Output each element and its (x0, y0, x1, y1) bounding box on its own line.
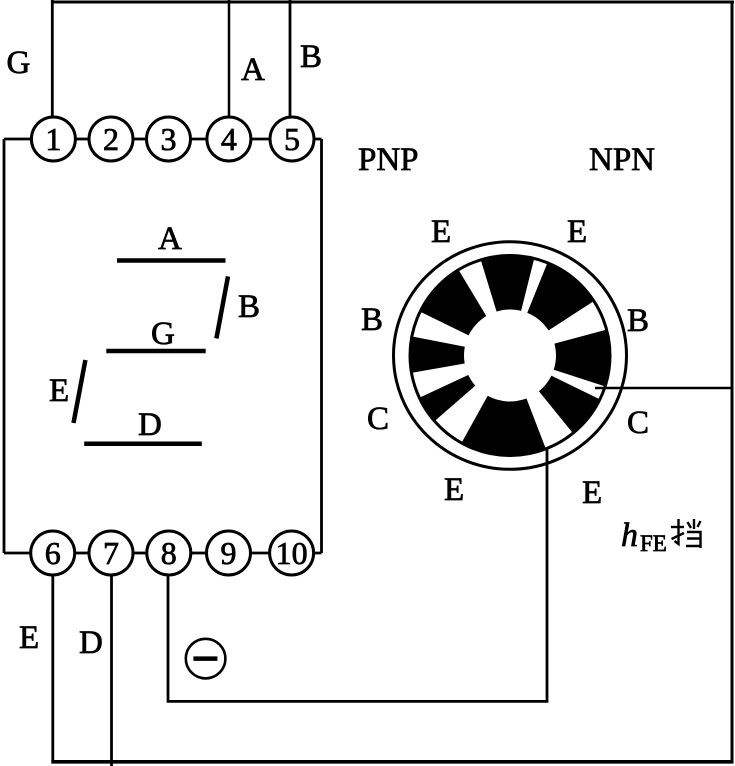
svg-text:E: E (444, 472, 464, 508)
svg-text:NPN: NPN (589, 142, 655, 178)
svg-text:B: B (627, 303, 649, 339)
svg-text:FE: FE (640, 531, 667, 556)
pin 9 (207, 531, 251, 575)
segment E (74, 360, 86, 423)
pin 7 (89, 531, 133, 575)
socket ring outline (410, 256, 610, 456)
wire between pin 3 and pin 4 (191, 138, 207, 141)
segment B (216, 276, 228, 338)
svg-text:A: A (158, 221, 182, 257)
svg-text:2: 2 (103, 121, 119, 157)
negative terminal symbol (186, 639, 226, 679)
svg-text:7: 7 (103, 535, 119, 571)
wire pin 8 down and right to socket (168, 431, 547, 701)
svg-text:E: E (582, 475, 602, 511)
svg-text:E: E (19, 620, 39, 656)
svg-text:h: h (621, 517, 638, 554)
svg-text:4: 4 (221, 121, 237, 157)
wire right bus (731, 1, 734, 763)
svg-text:G: G (7, 45, 31, 81)
pin 2 (89, 117, 133, 161)
wire between pin 8 and pin 9 (191, 552, 207, 555)
svg-text:5: 5 (284, 121, 300, 157)
svg-text:G: G (151, 316, 175, 352)
wire B (pin 5 to top) (289, 0, 292, 118)
svg-text:A: A (241, 52, 265, 88)
svg-text:E: E (431, 214, 451, 250)
wire top bus (51, 1, 734, 4)
pin 6 (31, 531, 75, 575)
wire G (pin 1 to top bus) (51, 0, 54, 119)
svg-text:6: 6 (45, 535, 61, 571)
svg-text:3: 3 (161, 121, 177, 157)
svg-text:D: D (79, 625, 103, 661)
wire between pin 6 and pin 7 (75, 552, 89, 555)
pin 3 (147, 117, 191, 161)
svg-text:10: 10 (276, 535, 308, 571)
label dang (Chinese character) (671, 519, 701, 548)
wire between pin 2 and pin 3 (133, 138, 147, 141)
display outline left edge (4, 139, 31, 553)
hFE socket U1 (394, 242, 627, 470)
pin 8 (147, 531, 191, 575)
svg-text:B: B (300, 39, 322, 75)
svg-text:B: B (238, 289, 260, 325)
wire between pin 1 and pin 2 (75, 138, 89, 141)
svg-text:1: 1 (45, 121, 61, 157)
wire bottom bus (51, 760, 733, 764)
pin 1 (31, 117, 75, 161)
wire A (pin 4 to top) (228, 0, 231, 118)
display outline right edge (314, 139, 322, 553)
segment G (106, 349, 205, 354)
socket ring with holes (410, 256, 610, 456)
wire between pin 7 and pin 8 (133, 552, 147, 555)
segment D (84, 441, 202, 446)
segment A (117, 258, 226, 263)
svg-text:9: 9 (221, 535, 237, 571)
svg-text:PNP: PNP (358, 142, 419, 178)
wire between pin 9 and pin 10 (251, 552, 270, 555)
wire between pin 4 and pin 5 (251, 138, 270, 141)
svg-text:D: D (138, 407, 162, 443)
wire pin 7 down (110, 575, 113, 766)
pin 4 (207, 117, 251, 161)
svg-text:E: E (49, 373, 69, 409)
socket outer circle (394, 242, 627, 470)
pin 5 (270, 117, 314, 161)
svg-text:C: C (627, 405, 649, 441)
wire socket C to right bus (595, 387, 732, 390)
pin 10 (270, 531, 314, 575)
svg-text:8: 8 (161, 535, 177, 571)
svg-text:B: B (361, 302, 383, 338)
wire pin 6 to bottom bus (51, 575, 54, 762)
svg-text:C: C (367, 401, 389, 437)
svg-text:E: E (567, 214, 587, 250)
